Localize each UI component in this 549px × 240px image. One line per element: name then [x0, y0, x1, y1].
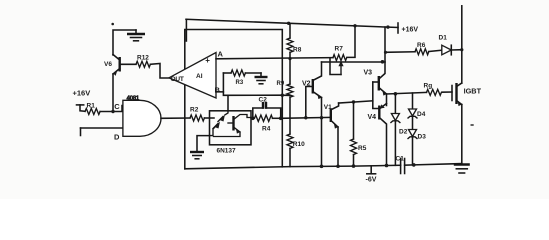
wire opto Vcc stub: [227, 95, 229, 111]
wire LED connections: [225, 111, 228, 115]
resistor R12: [120, 63, 136, 65]
op-amp A1: [169, 53, 216, 99]
wire top-left bracket: [113, 30, 136, 55]
svg-text:C1: C1: [396, 156, 405, 163]
node C2/R4 right: [279, 117, 283, 121]
ground R3: [260, 73, 262, 77]
svg-text:-6V: -6V: [366, 177, 377, 184]
svg-text:+16V: +16V: [402, 27, 419, 34]
resistor R3: [223, 72, 231, 74]
node dot above bracket: [111, 23, 114, 26]
wire R12 to op-amp output: [150, 64, 169, 79]
node rail-V3 junction: [386, 25, 389, 28]
wire R6/D1 line: [385, 51, 415, 54]
svg-text:R6: R6: [417, 42, 426, 49]
svg-text:B: B: [215, 86, 221, 95]
svg-text:D: D: [114, 133, 120, 142]
resistor R7 potentiometer: [333, 55, 347, 61]
wire gate output: [161, 117, 190, 119]
svg-text:V6: V6: [104, 61, 112, 68]
svg-text:D1: D1: [439, 35, 448, 42]
wire V2 collector to V3 collector: [322, 61, 386, 63]
diode LED2 inside opto: [215, 122, 221, 129]
resistor R9: [289, 58, 291, 84]
big box module outline: [185, 30, 282, 169]
ground opto: [197, 136, 210, 152]
svg-text:+16V: +16V: [73, 89, 91, 98]
ground IGBT emitter: [454, 163, 470, 165]
svg-text:R12: R12: [137, 55, 149, 62]
svg-text:Rg: Rg: [424, 83, 433, 90]
transistor V2: [312, 79, 314, 94]
wire opto output node: [251, 117, 253, 120]
svg-text:A: A: [218, 50, 224, 59]
wire -6V tap: [370, 166, 372, 174]
svg-text:C: C: [114, 102, 120, 111]
wire rail stub to box: [185, 19, 187, 41]
transistor opto phototransistor: [232, 116, 234, 131]
svg-text:+: +: [205, 56, 210, 65]
svg-text:AI: AI: [196, 73, 203, 80]
wire input D terminal: [80, 128, 82, 136]
transistor IGBT: [451, 86, 453, 101]
resistor R5: [353, 102, 355, 139]
diode D1: [442, 45, 452, 55]
transistor V1: [330, 108, 332, 122]
wire R7 wiper arrow: [340, 64, 342, 75]
artifact speck right edge: [471, 124, 474, 126]
transistor V4: [378, 106, 380, 120]
diode D2 zener: [394, 94, 396, 113]
svg-text:R3: R3: [236, 80, 244, 86]
diode LED1 inside opto: [220, 115, 226, 122]
svg-text:IGBT: IGBT: [464, 87, 482, 96]
wire bottom rail: [185, 165, 401, 169]
node rail-R8 junction: [287, 22, 290, 25]
wire V1 base line: [281, 116, 331, 119]
svg-text:R9: R9: [277, 81, 285, 87]
wire B input: [216, 73, 223, 92]
svg-text:R10: R10: [293, 141, 305, 148]
wire V4 base line: [339, 101, 373, 103]
svg-text:C2: C2: [259, 97, 268, 104]
svg-text:R4: R4: [262, 126, 271, 133]
capacitor C2 branch: [253, 108, 263, 118]
capacitor C1: [400, 159, 402, 174]
resistor R8 column: [289, 23, 291, 38]
wire push-pull node: [386, 94, 388, 106]
svg-text:OUT: OUT: [171, 76, 184, 83]
svg-text:6N137: 6N137: [217, 148, 237, 155]
svg-text:V3: V3: [364, 70, 373, 77]
wire top +16V rail: [186, 19, 398, 27]
resistor Rg: [427, 89, 442, 95]
svg-text:V4: V4: [368, 114, 377, 121]
svg-text:D2: D2: [399, 129, 408, 136]
wire R1 to gate pin C: [100, 106, 123, 112]
node B-line/box edge: [281, 94, 284, 97]
svg-text:R7: R7: [335, 45, 344, 52]
wire input C terminal: [77, 104, 84, 106]
node rail-R7 junction: [353, 24, 356, 27]
svg-text:R5: R5: [358, 145, 367, 152]
resistor R6: [415, 49, 429, 55]
node +16V terminal right: [397, 23, 399, 33]
resistor R4: [255, 115, 273, 121]
optocoupler U2 6N137 box: [210, 111, 252, 145]
resistor R10: [287, 134, 293, 148]
wire gate drive line: [387, 92, 427, 94]
transistor V3: [378, 76, 380, 91]
wire A input line: [216, 58, 333, 59]
wire collector line: [461, 6, 463, 83]
diode D3 zener: [409, 130, 417, 137]
svg-text:4081: 4081: [127, 95, 140, 102]
wire B node line: [223, 92, 290, 96]
gate U1 4081 AND: [123, 100, 161, 136]
svg-text:D3: D3: [418, 134, 427, 141]
resistor R2: [190, 115, 204, 121]
svg-text:R1: R1: [87, 103, 96, 110]
ground top-left: [135, 30, 137, 34]
wire emitter to ground: [461, 105, 463, 164]
diode D4 zener: [412, 93, 414, 109]
node C2/R4 left: [251, 117, 255, 121]
svg-text:R8: R8: [293, 47, 302, 54]
svg-text:D4: D4: [417, 111, 426, 118]
node bottom rail dots: [320, 165, 324, 169]
node junction R1/V6: [111, 110, 114, 113]
svg-text:R2: R2: [190, 106, 199, 113]
resistor R1: [85, 109, 100, 115]
transistor V6: [118, 57, 120, 72]
